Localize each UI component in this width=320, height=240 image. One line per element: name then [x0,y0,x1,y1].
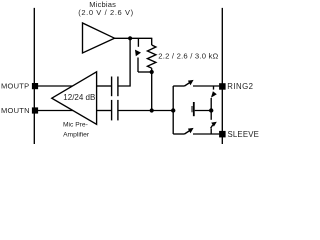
svg-text:MOUTN: MOUTN [1,106,30,115]
left boundary line [33,8,35,144]
svg-text:12/24 dB: 12/24 dB [63,93,95,102]
junction dot micbias node [128,36,132,40]
wire micbias output [114,37,152,39]
RING2 row wire left [173,85,184,87]
svg-text:Amplifier: Amplifier [63,132,90,139]
terminal MOUTN [32,107,38,113]
wire R1 bottom to rail [151,72,153,111]
terminal RING2 [219,83,226,90]
op-amp U1 mic preamp [52,72,97,125]
wire C1 to micbias node [119,38,131,86]
switch S3 SLEEVE [185,128,194,134]
junction dot R1 bottom [150,70,154,74]
svg-text:MOUTP: MOUTP [1,81,29,90]
switch S5 SLEEVE detect [211,111,217,135]
terminal SLEEVE [219,131,226,138]
junction dot rail R1 [150,108,154,112]
wire C3 to detect node [195,110,212,112]
junction dot rail end [171,108,175,112]
svg-text:Mic Pre-: Mic Pre- [63,122,88,129]
wire preamp to C1 [97,85,112,87]
RING2 row wire right [193,85,219,87]
svg-text:(2.0 V / 2.6 V): (2.0 V / 2.6 V) [78,8,134,17]
junction dot detect node [209,108,213,112]
wire preamp to C2 [97,110,112,112]
SLEEVE row wire right [193,133,219,135]
switch S2 RING2 [185,80,194,86]
switch S1 micbias shunt [135,38,152,72]
capacitor C3 detect [192,102,194,116]
detect bus vertical [172,86,174,134]
terminal MOUTP [32,83,38,89]
resistor R1 [147,38,156,72]
SLEEVE row wire left [173,133,184,135]
wire MOUTP [38,85,73,87]
svg-text:RING2: RING2 [227,82,253,91]
capacitor C2 bottom [112,100,118,121]
micbias buffer amp [83,23,115,53]
svg-text:SLEEVE: SLEEVE [228,130,260,139]
switch S4 RING2 detect [211,86,217,111]
jack boundary line [221,8,223,144]
svg-text:2.2 / 2.6 / 3.0 kΩ: 2.2 / 2.6 / 3.0 kΩ [158,51,218,60]
capacitor C1 top [112,77,118,97]
rail wire [119,110,174,112]
wire MOUTN [38,110,73,112]
